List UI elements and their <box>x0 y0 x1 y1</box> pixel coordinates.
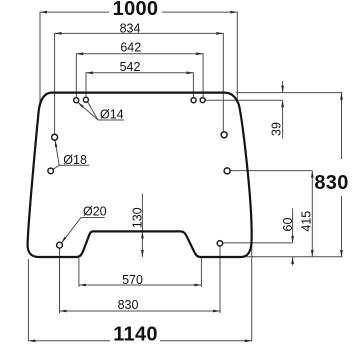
svg-text:570: 570 <box>122 273 143 287</box>
svg-text:Ø20: Ø20 <box>83 205 107 219</box>
svg-text:830: 830 <box>314 172 348 194</box>
svg-text:1000: 1000 <box>113 0 159 20</box>
svg-text:Ø14: Ø14 <box>100 108 124 122</box>
svg-text:39: 39 <box>270 122 284 136</box>
svg-text:830: 830 <box>118 298 139 312</box>
svg-text:130: 130 <box>130 207 144 228</box>
svg-text:60: 60 <box>281 218 295 232</box>
svg-text:415: 415 <box>299 211 313 232</box>
svg-text:1140: 1140 <box>113 323 158 345</box>
svg-text:Ø18: Ø18 <box>63 153 87 167</box>
svg-text:834: 834 <box>120 21 141 35</box>
svg-text:542: 542 <box>120 60 141 74</box>
svg-text:642: 642 <box>120 41 141 55</box>
